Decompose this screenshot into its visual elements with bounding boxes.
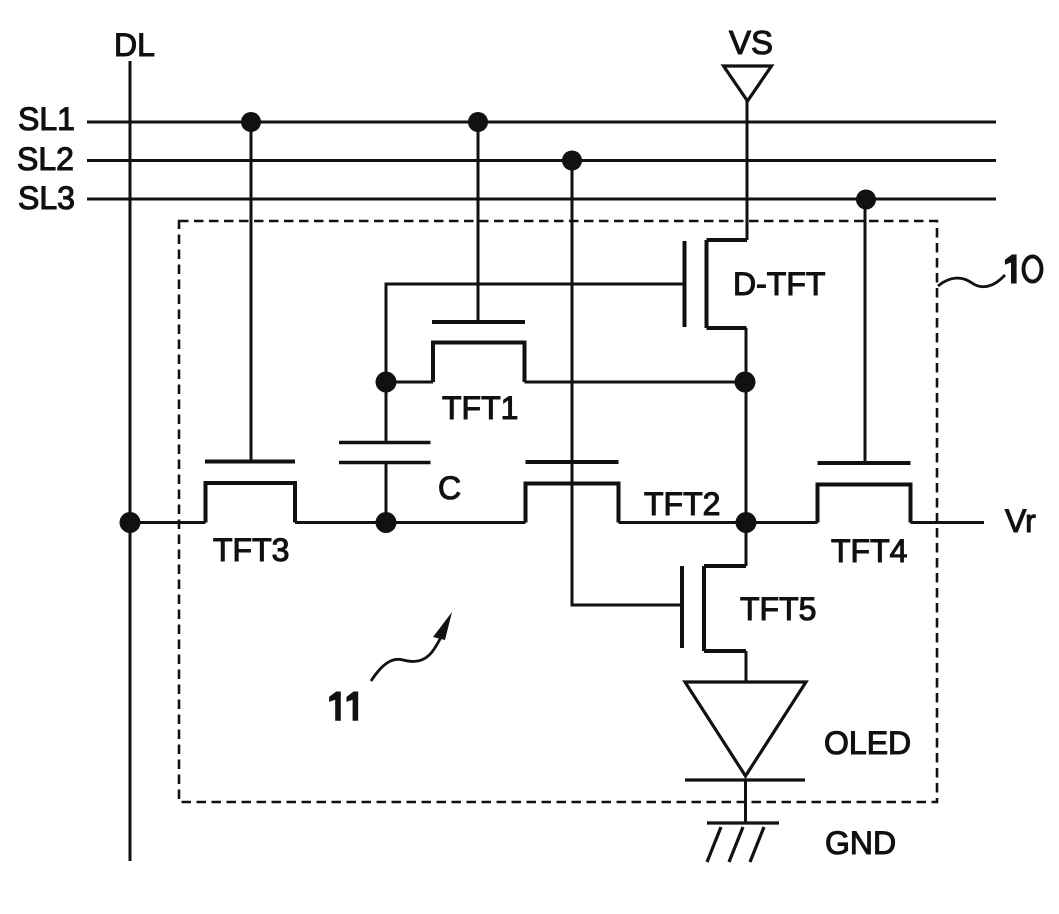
svg-text:D-TFT: D-TFT [733,266,825,302]
junction node B [735,372,756,393]
wire main row DL to TFT3 [130,521,206,524]
label 10 [1005,255,1017,284]
wire SL2 to TFT5 gate [572,161,682,606]
junction node D [376,512,397,533]
svg-text:SL2: SL2 [17,141,74,177]
svg-text:GND: GND [825,825,896,861]
svg-text:Vr: Vr [1005,503,1036,539]
svg-text:TFT5: TFT5 [740,591,816,627]
leader arrow squiggle to label 11 [371,612,452,681]
wire SL1 scan line [87,121,996,124]
leader squiggle to label 10 [938,275,1005,287]
wire TFT1 source to node A [386,381,433,384]
transistor TFT2 [526,462,619,523]
wire OLED cathode to GND [744,780,747,823]
svg-text:OLED: OLED [824,725,911,761]
transistor D-TFT [685,240,748,328]
wire SL3 scan line [87,198,996,201]
wire node A to D-TFT gate [386,284,685,382]
junction dot SL2/TFT5 [562,151,582,171]
wire SL3 to TFT4 gate [864,199,867,463]
junction node C [736,512,757,533]
transistor TFT4 [818,463,911,523]
transistor TFT3 [205,462,295,523]
transistor TFT5 [682,566,746,651]
svg-text:TFT2: TFT2 [644,486,720,522]
junction dot SL1/TFT3 [241,112,261,132]
wire node C to TFT4 [746,521,818,524]
wire SL2 scan line [87,159,996,162]
wire DL vertical data line [129,61,132,861]
transistor TFT1 [432,322,525,382]
wire SL1 to TFT1 gate [477,122,480,322]
svg-text:TFT4: TFT4 [831,533,907,569]
capacitor C [339,443,431,463]
wire node C to TFT5 drain [745,523,748,567]
pixel boundary dashed box 10 [179,221,937,802]
wire node A to capacitor C [385,382,388,443]
wire TFT1 drain to node B [525,381,746,384]
junction dot SL1/TFT1 [468,112,488,132]
svg-text:SL1: SL1 [18,101,75,137]
wire TFT2 to node C [619,521,747,524]
svg-text:DL: DL [114,27,155,63]
wire node B to node C [745,328,748,523]
svg-text:TFT3: TFT3 [213,532,289,568]
wire TFT5 source to OLED anode [745,651,748,682]
svg-text:VS: VS [729,24,773,61]
wire VS to D-TFT drain [746,101,749,240]
wire capacitor C to node D [385,463,388,523]
power symbol VS triangle [724,66,772,101]
junction dot SL3/TFT4 [856,190,876,210]
wire TFT4 to Vr [911,521,985,524]
wire SL1 to TFT3 gate [250,122,253,462]
junction node E on DL [120,512,141,533]
junction node A [376,372,397,393]
label 11 [329,692,358,721]
ground GND symbol [707,823,779,862]
diode OLED [685,682,806,780]
wire TFT3 to TFT2 [295,521,526,524]
svg-text:TFT1: TFT1 [442,390,518,426]
svg-text:SL3: SL3 [18,180,75,216]
svg-text:C: C [438,470,461,506]
